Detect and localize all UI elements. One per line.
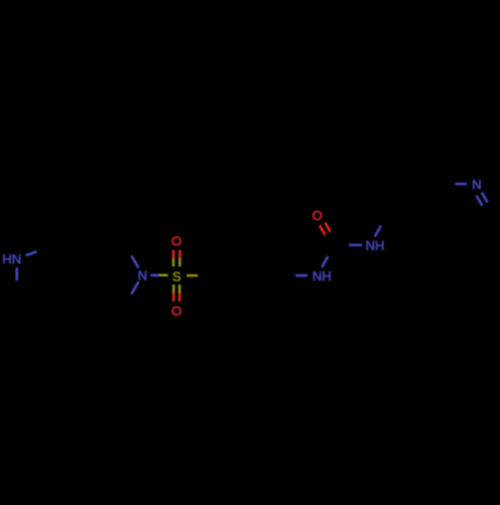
svg-text:O: O (312, 208, 322, 223)
wire S to benzene olive half (187, 274, 198, 277)
svg-text:HN: HN (2, 252, 21, 267)
S=O bottom double bond olive halves (172, 285, 175, 293)
wire N2-S blue half (151, 274, 160, 277)
wire N2-S olive half (160, 274, 169, 277)
svg-text:N: N (472, 177, 482, 192)
svg-text:S: S (172, 269, 181, 284)
svg-text:NH: NH (312, 269, 331, 284)
wire N1 to C ring up-right (26, 252, 37, 256)
wire N2 to C down-left (132, 282, 139, 294)
wire N4 to CH2 blue half (375, 226, 381, 237)
svg-text:NH: NH (365, 238, 384, 253)
wire N2 to C up-left (132, 256, 139, 268)
wire pyridine N to C2 blue half (455, 183, 467, 186)
S=O top double bond olive halves (172, 258, 175, 266)
wire benzene to N3 blue half (296, 274, 308, 277)
svg-text:O: O (171, 234, 181, 249)
svg-text:O: O (171, 304, 181, 319)
S=O top double bond red halves (172, 250, 175, 258)
svg-text:N: N (138, 268, 148, 283)
S=O bottom double bond red halves (172, 293, 175, 302)
pyridine N=C6 double bond outer blue half (482, 192, 488, 202)
wire N3 to urea C blue half (322, 256, 328, 267)
pyridine N=C6 double bond inner blue half (476, 196, 482, 206)
urea C=O double bond red halves (320, 225, 325, 235)
wire urea C to N4 blue half (349, 244, 362, 247)
wire N1 to C ring down (16, 268, 19, 281)
